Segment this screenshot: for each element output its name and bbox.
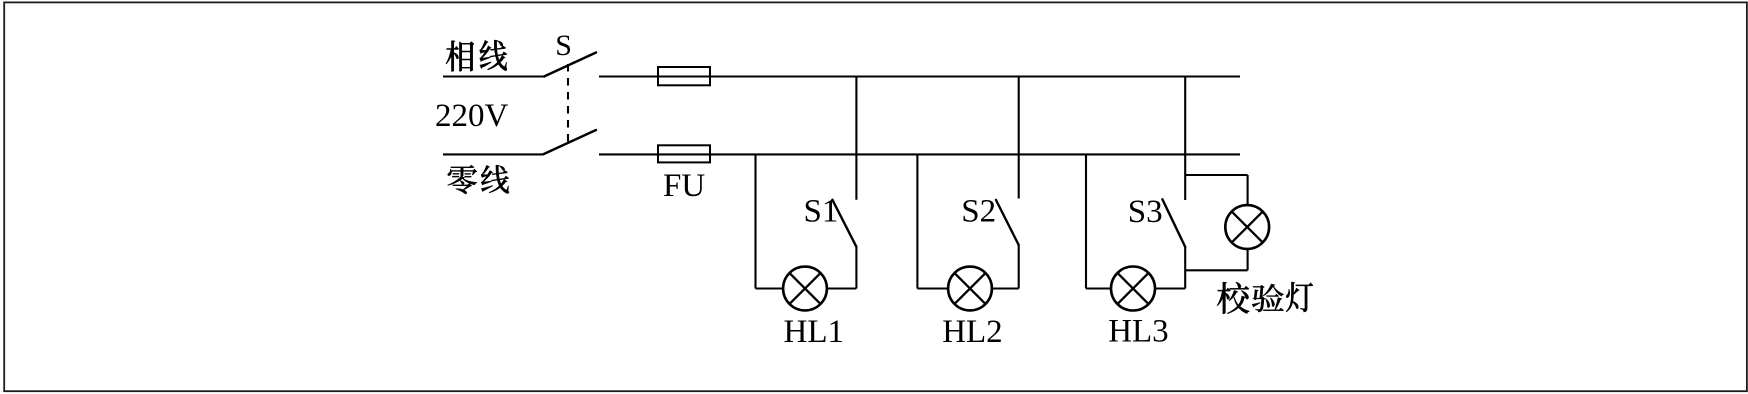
wire phase-line right segment (599, 75, 1240, 77)
svg-text:HL3: HL3 (1108, 314, 1169, 350)
svg-text:FU: FU (663, 168, 705, 204)
switch S3 blade (1162, 199, 1185, 247)
wire HL1 left horizontal (756, 287, 784, 289)
wire S1 to HL1 right (855, 247, 857, 289)
label 灯 (test lamp text 校验灯) (1286, 282, 1313, 312)
wire phase drop to S1 (855, 77, 857, 200)
wire HL3 left horizontal (1086, 287, 1111, 289)
switch S2 blade (996, 200, 1019, 245)
lamp HL1 (783, 267, 827, 311)
switch S upper blade (544, 53, 596, 77)
lamp 校验灯 (test lamp) (1225, 205, 1269, 249)
label 相 (phase-line text 相线) (446, 41, 474, 72)
wire phase drop to S2 (1018, 77, 1020, 199)
lamp HL2 (948, 267, 992, 311)
wire phase-line left segment (443, 75, 544, 77)
switch S linkage dashed line (567, 64, 569, 143)
wire HL1 right horizontal (827, 287, 857, 289)
wire neutral drop to HL2 (916, 154, 918, 288)
svg-text:HL1: HL1 (784, 314, 845, 350)
label 线 (neutral-line text 零线) (481, 165, 509, 193)
svg-text:S2: S2 (961, 194, 996, 230)
wire S3 to HL3 right (1184, 247, 1186, 289)
wire test-lamp bottom horizontal (1185, 269, 1247, 271)
wire neutral drop to HL1 (754, 154, 756, 288)
wire test-lamp top vertical (1247, 175, 1249, 205)
label 零 (neutral-line text 零线) (448, 165, 477, 194)
label 校 (test lamp text 校验灯) (1217, 282, 1249, 314)
switch S lower blade (543, 130, 596, 154)
svg-text:S3: S3 (1128, 194, 1163, 230)
wire HL3 right horizontal (1155, 287, 1185, 289)
svg-text:220V: 220V (435, 98, 509, 134)
switch S1 blade (832, 200, 856, 247)
wire test-lamp top horizontal (1185, 174, 1247, 176)
label 线 (phase-line text 相线) (480, 40, 507, 70)
svg-text:S: S (555, 29, 572, 62)
wire neutral-line left segment (443, 153, 543, 155)
wire HL2 left horizontal (917, 287, 948, 289)
wire neutral drop to HL3 (1085, 154, 1087, 288)
label 验 (test lamp text 校验灯) (1252, 284, 1284, 312)
wire HL2 right horizontal (992, 287, 1019, 289)
wire phase drop to S3 (1184, 77, 1186, 201)
lamp HL3 (1111, 267, 1155, 311)
fuse FU lower (658, 145, 710, 162)
wire neutral-line right segment (599, 153, 1240, 155)
svg-text:HL2: HL2 (942, 314, 1003, 350)
fuse FU upper (658, 67, 710, 85)
wire test-lamp bottom vertical (1247, 249, 1249, 270)
wire S2 to HL2 right (1018, 245, 1020, 289)
svg-text:S1: S1 (804, 194, 839, 230)
